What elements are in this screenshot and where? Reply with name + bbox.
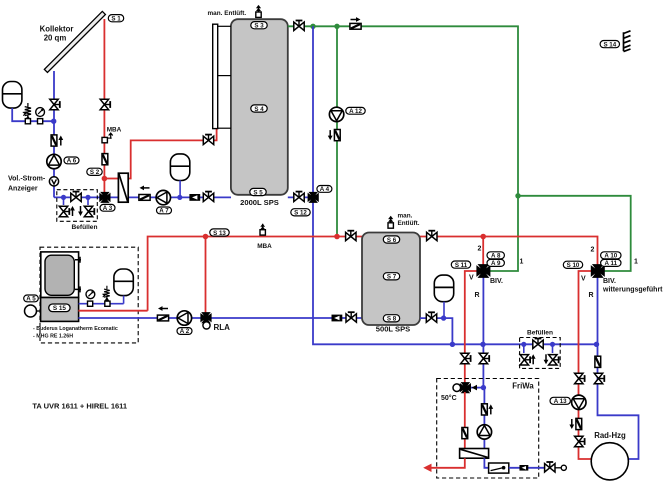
fill valve right — [552, 344, 554, 353]
svg-text:man.: man. — [398, 213, 413, 220]
node: blue dot — [85, 195, 90, 200]
wire: red out w/ arrow — [428, 458, 465, 468]
svg-text:S 7: S 7 — [387, 274, 397, 281]
svg-text:BIV.: BIV. — [603, 278, 616, 285]
label A7 — [157, 207, 172, 215]
wire: red distribution line y236.5 — [148, 237, 598, 311]
node: blue junction — [51, 119, 56, 124]
check valve w/ down arrow — [576, 418, 582, 429]
valve below bus red — [461, 353, 471, 363]
node: green junction — [515, 193, 520, 198]
tank 500L SPS — [362, 233, 420, 326]
arrow down — [78, 206, 83, 216]
small motor rect — [519, 465, 528, 471]
wire: tank2 bottom right blue — [420, 317, 444, 319]
valve between — [533, 339, 543, 349]
wire: collector hot red downcomer — [103, 19, 105, 179]
valve on red coil line — [203, 135, 213, 145]
svg-text:S 14: S 14 — [603, 41, 616, 48]
svg-text:witterungsgeführt: witterungsgeführt — [602, 287, 663, 294]
valve on red downcomer — [100, 99, 110, 109]
valve red — [575, 373, 585, 383]
wire: green branch to BIV2 — [518, 196, 631, 271]
wire: boiler instrument line blue — [79, 303, 124, 305]
node: blue dot — [177, 195, 182, 200]
fill valve left — [63, 197, 65, 205]
sensor S10 — [563, 261, 582, 269]
svg-text:A 7: A 7 — [159, 208, 169, 215]
valve tank top — [294, 21, 304, 31]
boiler outer body — [41, 252, 79, 298]
wire: vessel stem — [179, 180, 181, 197]
vent — [388, 216, 393, 229]
svg-text:A 10: A 10 — [604, 253, 617, 260]
wire: R1 blue down — [482, 277, 484, 388]
node: bus dot R1 — [480, 342, 485, 347]
sensor S3 — [251, 22, 267, 30]
svg-text:A 11: A 11 — [605, 260, 618, 267]
node: green dot — [334, 24, 339, 29]
wire: green A12 branch — [336, 26, 338, 236]
safety valve — [22, 103, 31, 119]
safety valve + square — [102, 286, 110, 301]
wire: jog down to bus — [444, 318, 453, 344]
label A6 — [64, 157, 79, 165]
Befuellen box 1 — [57, 190, 98, 222]
check valve w/ left arrow on return — [157, 315, 168, 321]
svg-text:S 6: S 6 — [387, 237, 397, 244]
check valve on blue w/ up arrow — [51, 135, 57, 146]
arrow down — [544, 354, 549, 364]
sensor S11 — [451, 261, 470, 269]
filter on red — [462, 428, 468, 439]
3-way mixer 50C — [460, 383, 470, 393]
svg-text:TA UVR 1611 + HIREL 1611: TA UVR 1611 + HIREL 1611 — [32, 402, 127, 411]
svg-text:S 12: S 12 — [294, 210, 307, 217]
sensor S1 — [108, 15, 123, 23]
pump A13 — [572, 395, 586, 409]
svg-text:Vol.-Strom-: Vol.-Strom- — [8, 176, 46, 183]
wire: coil stub mid — [218, 75, 231, 77]
svg-text:R: R — [475, 292, 480, 299]
node: red dot RLA branch — [203, 234, 209, 240]
sensor S12 — [291, 209, 310, 217]
svg-text:A 6: A 6 — [67, 158, 77, 165]
wire: boiler blue return — [78, 317, 362, 319]
check valve w/ left arrow — [139, 195, 150, 201]
svg-text:1: 1 — [520, 259, 524, 266]
fill valve right — [87, 197, 89, 205]
svg-text:A 8: A 8 — [491, 253, 501, 260]
wire: collector cold blue downcomer — [53, 71, 55, 197]
hinges — [75, 257, 81, 263]
sensor S14 w/ comb — [600, 41, 619, 49]
valve blue — [594, 373, 604, 383]
sensor S2 — [87, 168, 102, 176]
svg-text:50°C: 50°C — [441, 394, 457, 402]
burner circle + A5 — [25, 305, 37, 317]
arrow up — [58, 136, 63, 146]
valve left of 500L — [346, 231, 356, 241]
node: red junction S2 — [102, 176, 108, 182]
connection square 2 — [38, 119, 43, 124]
svg-text:A 13: A 13 — [554, 398, 567, 405]
svg-text:V: V — [469, 275, 474, 282]
svg-text:S 15: S 15 — [53, 305, 67, 312]
svg-text:Entlüft.: Entlüft. — [398, 220, 420, 227]
wire: stub to circle — [555, 467, 561, 469]
valve — [426, 312, 436, 322]
boiler base — [41, 298, 79, 322]
fill valve left — [523, 344, 525, 353]
label A5 — [24, 295, 39, 303]
svg-text:- Buderus Loganatherm Ecomatic: - Buderus Loganatherm Ecomatic — [33, 326, 118, 332]
motor rect near tank2 — [332, 315, 343, 322]
pump FriWa — [477, 425, 491, 439]
manual valve — [203, 192, 213, 202]
gauge + square — [86, 290, 95, 299]
svg-text:FriWa: FriWa — [512, 381, 534, 390]
boiler door — [45, 255, 74, 295]
pump A12 — [329, 107, 343, 121]
wire: green top line — [288, 26, 518, 271]
tap valve — [545, 462, 555, 472]
svg-text:A 3: A 3 — [103, 205, 113, 212]
node: red dot BIV1 branch — [480, 234, 486, 240]
boiler expansion vessel — [114, 269, 133, 296]
svg-text:S 8: S 8 — [387, 316, 397, 323]
wire: red S2 down to A3 — [103, 179, 105, 194]
svg-text:S 11: S 11 — [455, 262, 468, 269]
check valve w/ up arrow — [482, 404, 488, 415]
check valve w/ down arrow — [334, 130, 340, 141]
svg-text:S 1: S 1 — [111, 16, 121, 23]
label A13 — [550, 397, 570, 405]
node: blue dot — [481, 385, 486, 390]
svg-text:R: R — [589, 292, 594, 299]
svg-text:2000L SPS: 2000L SPS — [240, 198, 279, 207]
svg-text:S 5: S 5 — [253, 189, 263, 196]
svg-text:2: 2 — [591, 247, 595, 254]
svg-text:A 4: A 4 — [320, 186, 330, 193]
node: bus dot — [450, 342, 455, 347]
radiator circle Rad-Hzg — [591, 443, 628, 480]
valve right of 500L — [427, 231, 437, 241]
Befuellen box 2 — [520, 338, 561, 369]
sensor S4 — [251, 105, 267, 113]
FriWa dashed box — [437, 379, 539, 479]
wire: coil stub top — [218, 25, 231, 27]
valve — [294, 192, 304, 202]
wire: blue down to HX — [483, 388, 485, 449]
node: blue dot — [61, 195, 66, 200]
svg-text:man. Entlüft.: man. Entlüft. — [208, 10, 247, 17]
svg-text:S 2: S 2 — [90, 169, 100, 176]
svg-text:Befüllen: Befüllen — [71, 224, 97, 231]
svg-text:S 4: S 4 — [254, 106, 264, 113]
check valve w/ right arrow on green — [350, 23, 361, 29]
svg-text:BIV.: BIV. — [490, 278, 503, 285]
wire: blue from green dot down through A4 to bus corner — [313, 26, 597, 344]
sensor S5 — [250, 188, 266, 196]
filter on red — [102, 154, 108, 165]
svg-text:- MHG RE 1.26H: - MHG RE 1.26H — [33, 334, 73, 340]
wire: coil stub bottom — [218, 127, 231, 129]
pressure gauge — [36, 108, 45, 117]
svg-text:Anzeiger: Anzeiger — [8, 186, 38, 193]
3-way valve BIV2 — [591, 265, 604, 278]
svg-text:Kollektor: Kollektor — [40, 25, 74, 34]
node: blue dot — [441, 315, 446, 320]
wire: red mixer down to HX — [464, 392, 466, 449]
svg-text:Befüllen: Befüllen — [527, 330, 553, 337]
wire: blue to tap — [509, 467, 544, 469]
wire: R2 blue down — [598, 277, 639, 459]
wire: red HX right up and to tank coil — [128, 128, 216, 178]
pump A2 — [177, 311, 191, 325]
wire: V2 red out — [579, 271, 593, 459]
wire: red S2 to HX — [104, 178, 118, 180]
svg-text:A 12: A 12 — [349, 108, 362, 115]
svg-text:A 5: A 5 — [26, 296, 36, 303]
wire: vessel connection — [12, 108, 54, 121]
svg-text:A 9: A 9 — [491, 260, 501, 267]
flow meter box — [489, 463, 509, 473]
expansion vessel top-left — [3, 82, 22, 109]
valve red lower — [575, 436, 585, 446]
svg-text:S 10: S 10 — [567, 262, 580, 269]
valve on blue downcomer — [50, 99, 60, 109]
node: red dot green junction — [334, 234, 340, 240]
sensor S7 — [383, 273, 399, 281]
sensor S15 — [49, 304, 70, 312]
vent man. Entlueft. — [256, 5, 261, 18]
node: bus end dot — [594, 342, 599, 347]
sensor S8 — [383, 315, 399, 323]
arrow up — [531, 354, 536, 364]
motor rect valve — [189, 194, 200, 201]
internal coil plate — [213, 24, 218, 128]
svg-text:20 qm: 20 qm — [44, 34, 67, 43]
collector panel — [44, 11, 105, 72]
pump A7 — [156, 190, 170, 204]
svg-text:500L SPS: 500L SPS — [376, 325, 410, 334]
svg-text:S 13: S 13 — [213, 230, 226, 237]
expansion vessel near A7 — [170, 154, 189, 181]
node: blue dot — [521, 342, 526, 347]
node: green dot — [310, 24, 315, 29]
connection square 1 — [25, 119, 30, 124]
svg-text:V: V — [581, 276, 586, 283]
3-way valve A3 — [100, 192, 110, 202]
3-way valve BIV1 — [477, 265, 490, 278]
wire: red RLA drop — [205, 237, 207, 314]
label A12 — [346, 107, 365, 115]
label A3 — [100, 204, 115, 212]
expansion vessel — [434, 275, 453, 302]
label A4 — [317, 186, 332, 194]
svg-text:A 2: A 2 — [180, 328, 190, 335]
wire: blue to mixer w/ arrow — [471, 387, 483, 389]
heat exchanger FriWa — [460, 449, 489, 459]
arrow up — [488, 404, 493, 414]
svg-text:2: 2 — [478, 246, 482, 253]
svg-text:MBA: MBA — [257, 243, 272, 250]
sensor S13 — [210, 229, 229, 237]
wire: boiler red supply — [78, 310, 147, 312]
pump A6 — [47, 154, 61, 168]
label A2 — [177, 328, 192, 336]
valve near tank2 — [346, 312, 356, 322]
valve below bus blue — [479, 353, 489, 363]
svg-text:S 3: S 3 — [254, 23, 264, 30]
sensor S6 — [383, 236, 399, 244]
arrow up — [70, 206, 75, 216]
filter on blue — [595, 356, 601, 367]
svg-text:1: 1 — [634, 259, 638, 266]
node: blue dot — [550, 342, 555, 347]
wire: V1 red out — [465, 271, 477, 383]
volume flow indicator — [49, 177, 58, 186]
3-way valve RLA — [201, 313, 211, 323]
wire: tank1 bottom to A4 — [288, 196, 308, 198]
wire: red down to BIV1 — [482, 237, 484, 266]
svg-text:Rad-Hzg: Rad-Hzg — [594, 431, 626, 440]
svg-text:MBA: MBA — [107, 127, 122, 134]
svg-text:RLA: RLA — [214, 323, 231, 332]
3-way valve A4 — [308, 192, 318, 202]
boiler dashed box — [40, 247, 138, 343]
heat exchanger solar — [118, 173, 128, 202]
wire: blue out bottom — [484, 458, 488, 468]
MBA vent on S13 line — [260, 224, 265, 236]
tank 2000L SPS — [231, 19, 288, 195]
wire: blue main line y197 — [54, 196, 118, 198]
valve between — [71, 192, 81, 202]
